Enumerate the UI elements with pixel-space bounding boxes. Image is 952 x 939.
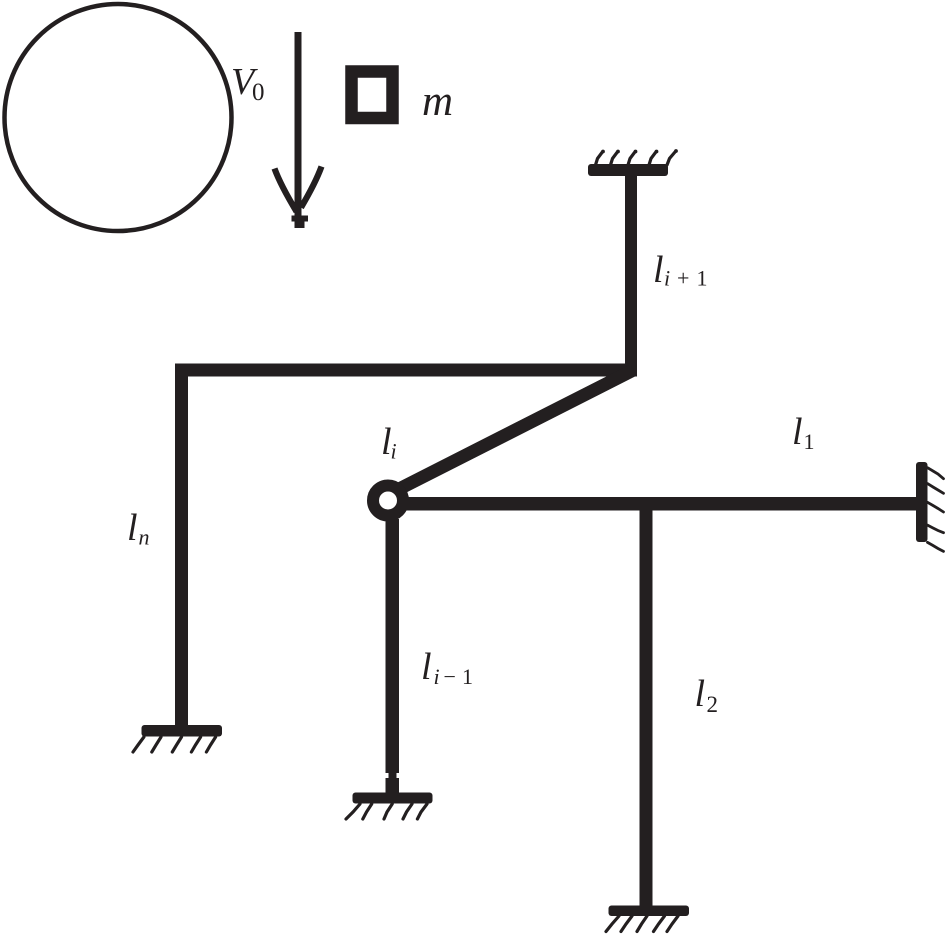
svg-text:l: l [792, 411, 803, 453]
fixed support top [588, 149, 678, 176]
svg-text:2: 2 [707, 692, 719, 717]
pin joint [373, 486, 403, 516]
svg-text:1: 1 [462, 664, 473, 689]
link l_i-1 [386, 519, 400, 793]
label l_n [127, 507, 150, 550]
svg-text:+: + [677, 266, 689, 291]
label l_i-1 [421, 646, 473, 689]
diagonal link l_i [400, 370, 634, 489]
svg-text:i: i [391, 439, 397, 464]
svg-text:l: l [695, 673, 706, 715]
link l_2 [640, 510, 653, 906]
link l_n [175, 364, 188, 726]
mass m square [352, 72, 393, 119]
svg-text:n: n [139, 525, 150, 550]
svg-text:i: i [434, 664, 440, 689]
svg-text:1: 1 [804, 429, 815, 454]
body circle [5, 4, 232, 231]
svg-text:0: 0 [252, 79, 265, 106]
label l_2 [695, 673, 719, 717]
svg-text:i: i [664, 266, 670, 291]
velocity arrow [275, 32, 322, 228]
wall support right [916, 462, 944, 551]
svg-text:l: l [653, 249, 664, 291]
svg-text:−: − [444, 664, 456, 689]
svg-text:l: l [127, 507, 138, 549]
beam l_1 [402, 497, 916, 511]
ground support middle [346, 793, 433, 820]
label V0 [231, 61, 265, 106]
wire horizontal top link [175, 364, 637, 377]
label l_i [381, 421, 397, 464]
svg-text:l: l [421, 646, 432, 688]
svg-text:1: 1 [697, 266, 708, 291]
link l_i+1 [625, 175, 637, 376]
label l_i+1 [653, 249, 708, 291]
notch artifact on l_i-1 [386, 773, 400, 778]
ground support left [133, 725, 222, 752]
label l_1 [792, 411, 815, 454]
svg-text:m: m [422, 78, 453, 125]
ground support bottom [606, 906, 689, 932]
